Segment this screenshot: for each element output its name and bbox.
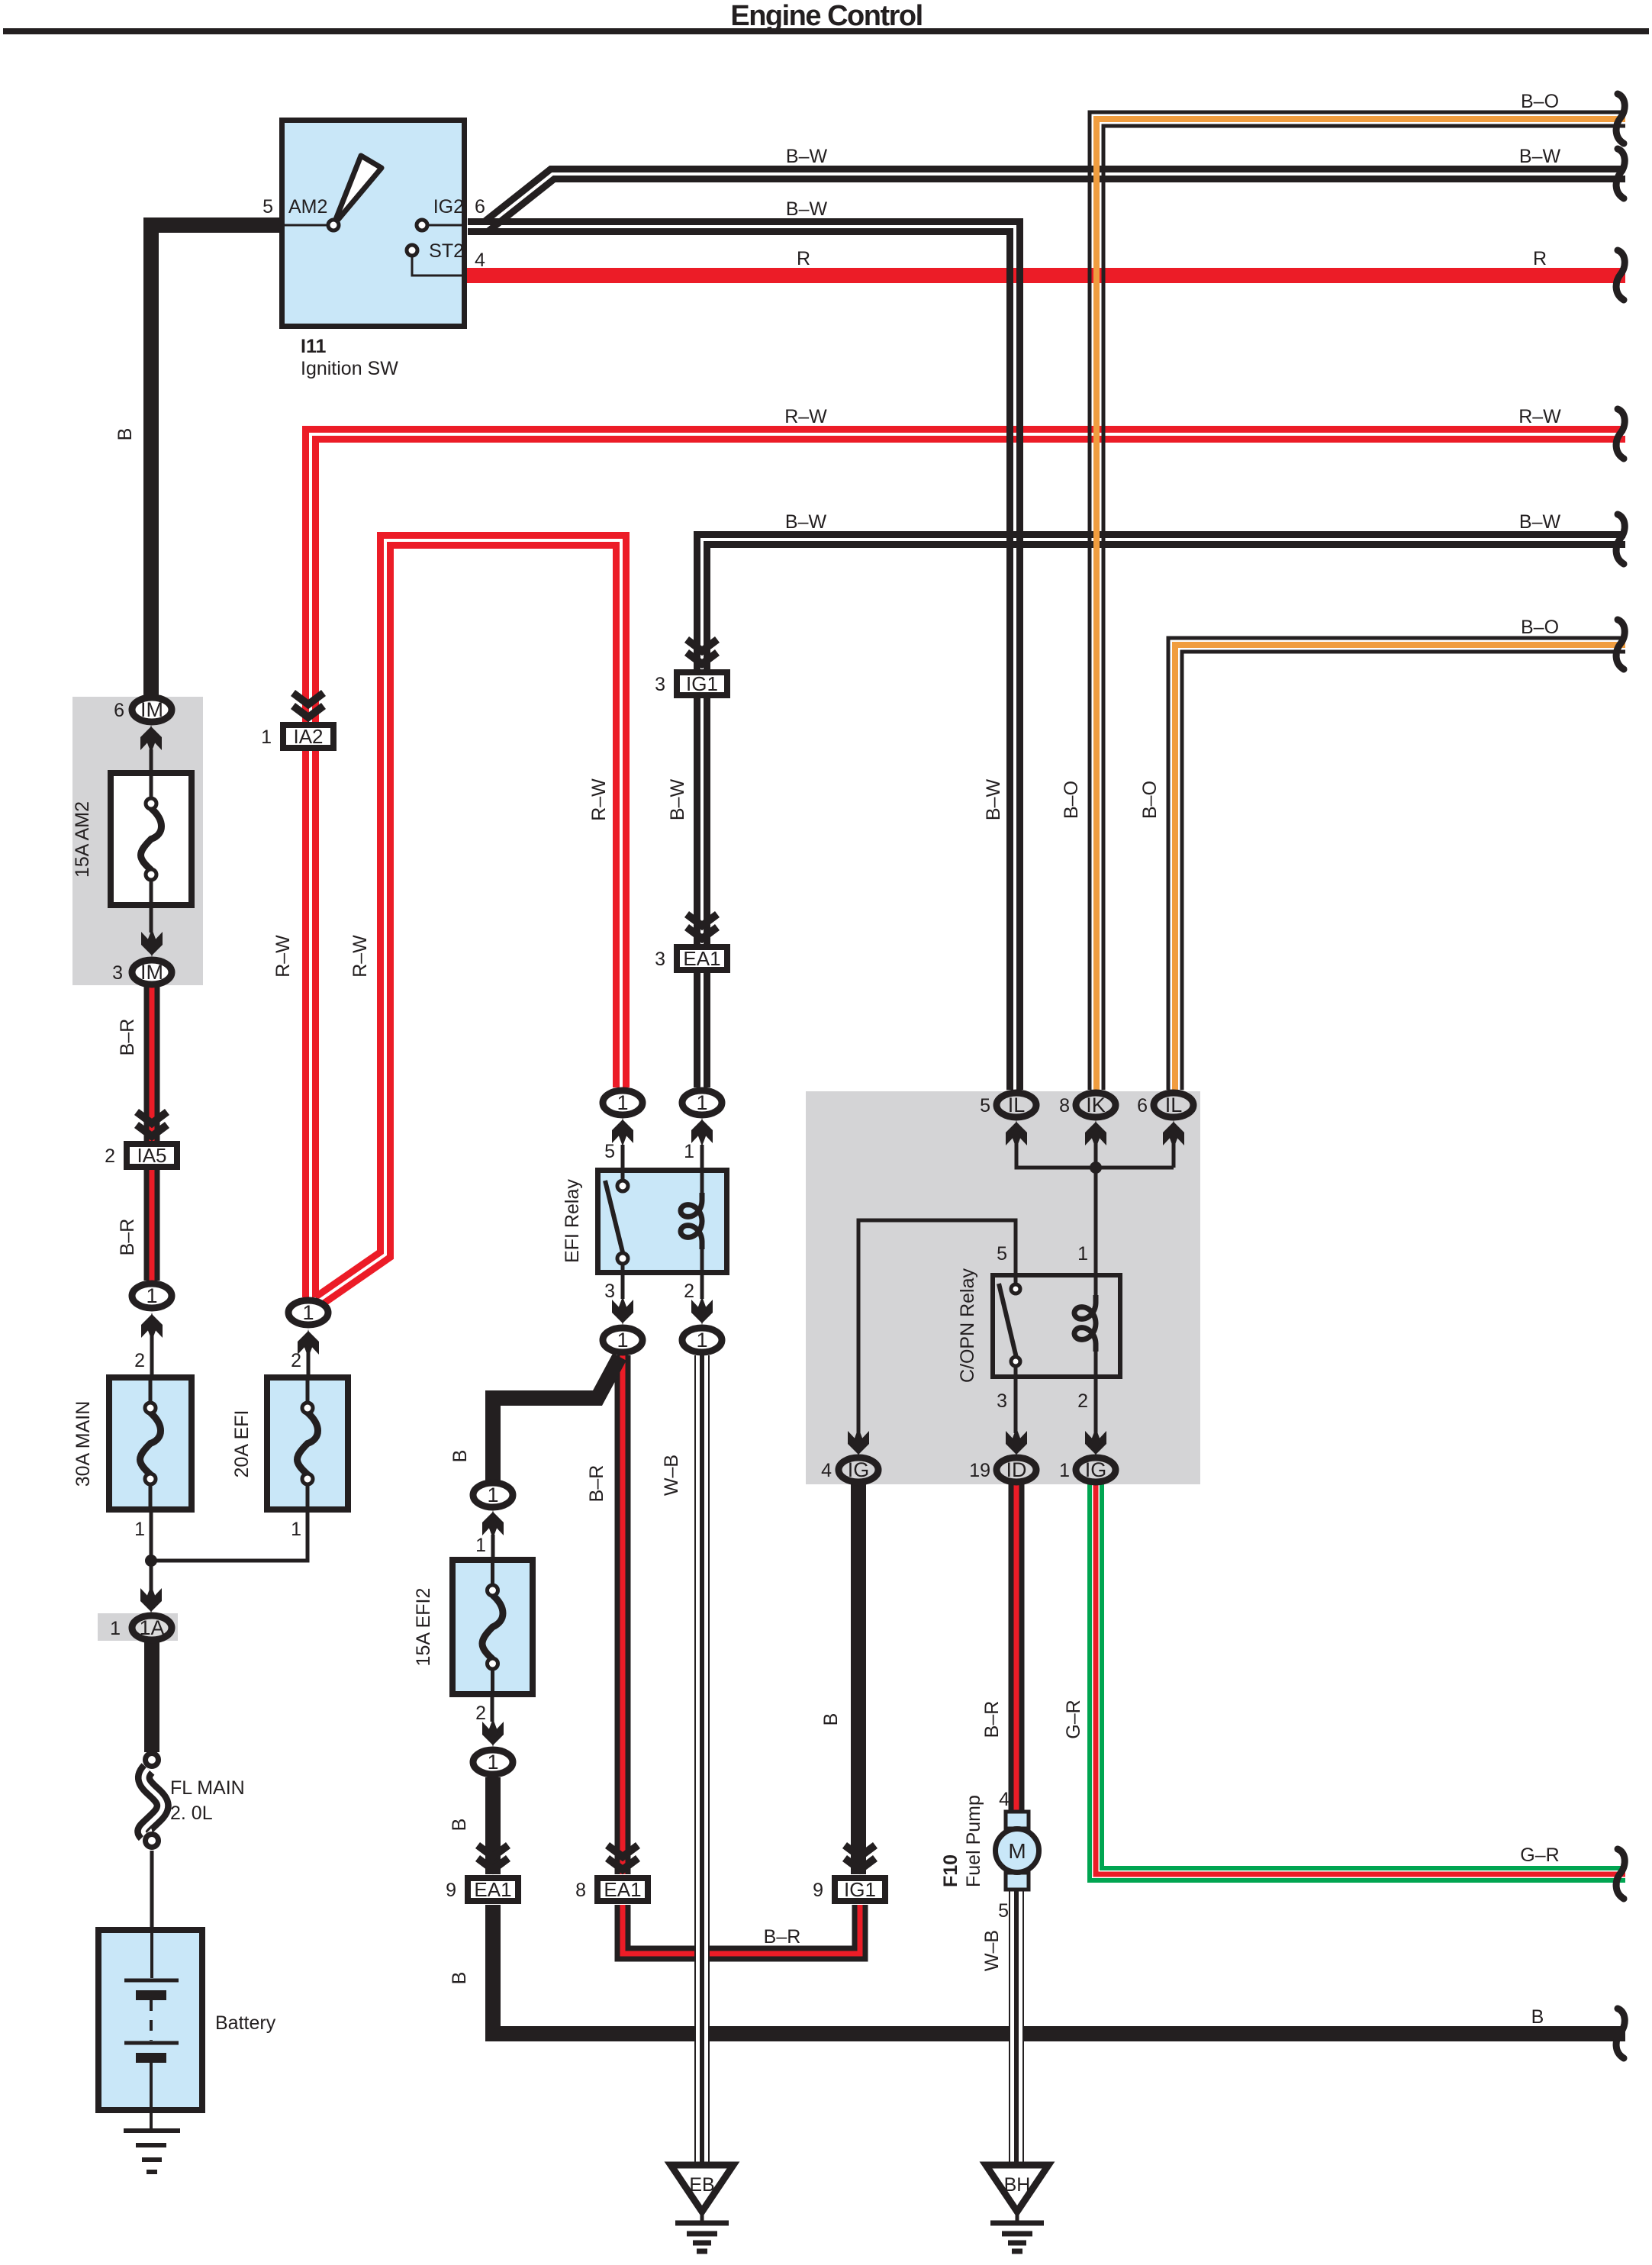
wire B thick 15A EFI2 to 9 EA1 (485, 1777, 501, 1874)
svg-text:2: 2 (1077, 1390, 1088, 1412)
svg-text:AM2: AM2 (288, 196, 327, 217)
svg-text:1: 1 (146, 1284, 157, 1307)
svg-text:2: 2 (475, 1703, 486, 1724)
arrow into oval above 30A MAIN (141, 1313, 163, 1341)
wire W-B from fuel pump pin 5 to BH ground (1009, 1890, 1024, 2164)
svg-text:ST2: ST2 (429, 240, 464, 262)
connector oval 1 above EFI relay pin 1 (682, 1091, 722, 1115)
svg-text:IG: IG (848, 1458, 870, 1481)
arrow into EA1 (687, 914, 717, 939)
svg-text:R–W: R–W (784, 406, 827, 427)
svg-text:5: 5 (604, 1141, 615, 1162)
svg-text:G–R: G–R (1063, 1700, 1084, 1738)
wire B thick from 1A to FL MAIN (144, 1642, 159, 1752)
arrow into 6 IL (1163, 1120, 1184, 1149)
svg-text:2: 2 (134, 1350, 145, 1371)
wire B-O lower from right edge down to 6 IL (1175, 645, 1625, 1090)
arrow into 5 IL (1006, 1120, 1027, 1149)
ignition switch ST2 contact (407, 245, 417, 256)
cut squiggle G-R (1616, 1849, 1625, 1899)
arrow into IA5 (137, 1112, 167, 1136)
wire thin links IL IK IL to C/OPN coil (1016, 1143, 1174, 1273)
svg-text:1: 1 (134, 1519, 145, 1540)
wire B thick from battery AM2 feed to ignition switch (151, 225, 279, 695)
C/OPN relay switch (999, 1273, 1020, 1379)
wire R-W from right edge to IA2 and 20A EFI fuse (311, 434, 1625, 1297)
battery cells symbol (124, 1927, 179, 2113)
arrow into 1A (140, 1585, 162, 1613)
svg-text:F10: F10 (940, 1854, 961, 1887)
svg-text:1: 1 (617, 1329, 628, 1352)
connector IA2 (283, 725, 333, 748)
arrow into oval above 15A EFI2 (482, 1510, 504, 1538)
svg-text:15A AM2: 15A AM2 (72, 801, 93, 878)
svg-text:IG1: IG1 (686, 672, 718, 695)
svg-text:9: 9 (813, 1880, 823, 1901)
svg-text:30A MAIN: 30A MAIN (72, 1401, 94, 1487)
svg-text:1A: 1A (139, 1616, 164, 1639)
svg-text:I11: I11 (301, 336, 326, 357)
svg-text:B: B (449, 1450, 471, 1463)
connector oval 1 below EFI relay pin 3 (603, 1328, 642, 1352)
svg-text:IG: IG (1085, 1458, 1107, 1481)
svg-text:Engine Control: Engine Control (730, 0, 922, 32)
wire R solid from ST2 pin 4 to right edge (467, 268, 1625, 283)
svg-text:1: 1 (617, 1091, 628, 1114)
svg-text:IM: IM (140, 698, 163, 721)
svg-text:R–W: R–W (1518, 406, 1561, 427)
svg-text:2: 2 (684, 1281, 694, 1302)
svg-text:IL: IL (1165, 1094, 1183, 1116)
svg-text:B: B (449, 1819, 470, 1832)
arrow into EFI relay oval pin5 (612, 1118, 633, 1146)
svg-text:1: 1 (475, 1535, 486, 1556)
cut squiggle R-W (1616, 409, 1625, 459)
svg-text:B–O: B–O (1521, 91, 1559, 112)
svg-text:EA1: EA1 (474, 1878, 511, 1901)
svg-text:8: 8 (1059, 1095, 1070, 1116)
arrow into 3 IM (141, 929, 163, 957)
svg-text:B: B (114, 428, 136, 441)
wire B-R from 19 ID to fuel pump pin 4 (1009, 1483, 1025, 1812)
svg-text:15A EFI2: 15A EFI2 (413, 1588, 434, 1667)
junction dot above C/OPN coil (1090, 1161, 1102, 1174)
svg-text:M: M (1008, 1839, 1026, 1863)
arrow into IG1 (687, 640, 717, 664)
svg-text:B–O: B–O (1139, 781, 1161, 819)
connector oval 1 above EFI relay pin 5 (603, 1091, 642, 1115)
connector oval 1 above 15A EFI2 (473, 1483, 513, 1507)
svg-text:2: 2 (105, 1145, 115, 1167)
wire B-O from right edge down to 8 IK (1097, 119, 1625, 1090)
connector oval 6 IM (132, 698, 172, 722)
connector 9 EA1 (468, 1878, 518, 1901)
arrow into 9 IG1 (845, 1845, 875, 1870)
battery ground symbol (124, 2113, 180, 2172)
connector 8 EA1 (597, 1878, 648, 1901)
connector IA5 (127, 1144, 177, 1167)
svg-text:1: 1 (1059, 1460, 1070, 1481)
cut squiggle B-W lower (1616, 514, 1625, 564)
connector oval 1 IG (1076, 1458, 1116, 1482)
cut squiggle B (1616, 2009, 1625, 2058)
connector oval 1A (132, 1616, 172, 1640)
connector oval 1 above 30A MAIN (132, 1284, 172, 1308)
EFI relay coil (700, 1145, 704, 1193)
arrow into 19 ID (1006, 1428, 1027, 1456)
connector oval 3 IM (132, 960, 172, 984)
svg-text:B–O: B–O (1061, 781, 1082, 819)
svg-text:IM: IM (140, 961, 163, 984)
connector oval 19 ID (997, 1458, 1036, 1482)
svg-text:R: R (1533, 248, 1547, 269)
arrow into oval above 20A EFI (298, 1329, 319, 1358)
svg-text:IL: IL (1008, 1094, 1026, 1116)
svg-text:EB: EB (689, 2174, 714, 2196)
connector oval 6 IL (1154, 1093, 1193, 1117)
svg-text:EA1: EA1 (683, 947, 720, 970)
ignition switch AM2 contact (328, 220, 339, 230)
svg-text:4: 4 (821, 1460, 832, 1481)
arrow into EFI relay pin3 output oval (612, 1297, 633, 1325)
wire B thick from 4 IG to 9 IG1 (851, 1483, 866, 1874)
arrow into 4 IG (848, 1428, 869, 1456)
connector 3 EA1 (677, 947, 727, 970)
wire thin C/OPN pin 5 to 4 IG (858, 1220, 1016, 1433)
svg-text:B: B (1531, 2006, 1544, 2028)
connector oval 1 below EFI relay pin 2 (682, 1328, 722, 1352)
svg-text:B–W: B–W (785, 511, 827, 533)
wire thin 30A MAIN entry (150, 1335, 154, 1377)
svg-text:1: 1 (696, 1091, 707, 1114)
ignition switch I11 box (279, 121, 467, 327)
wire thin C/OPN pin 3 to 19 ID (1014, 1379, 1018, 1433)
arrow into oval below 15A EFI2 (482, 1719, 504, 1747)
wire B-W from right edge to IG1 EA1 and EFI relay pin 1 (702, 540, 1625, 1087)
svg-text:R: R (797, 248, 810, 269)
svg-text:5: 5 (998, 1900, 1009, 1922)
svg-text:4: 4 (999, 1789, 1010, 1810)
wire B-R from EFI relay pin 3 oval down to 8 EA1 (615, 1355, 631, 1874)
wire thin from 30A MAIN to junction and 20A EFI (151, 1509, 308, 1561)
connector oval 4 IG (839, 1458, 878, 1482)
connector oval 1 above 20A EFI (288, 1300, 328, 1325)
wire B-R from 3 IM through IA5 to fuse oval (144, 987, 160, 1281)
svg-text:1: 1 (684, 1141, 694, 1162)
EFI relay switch (605, 1145, 628, 1299)
arrow into 8 IK (1085, 1120, 1106, 1149)
wire W-B from EFI relay pin 2 to EB ground (694, 1355, 710, 2164)
title rule (3, 28, 1649, 34)
ignition switch IG2 contact (417, 220, 427, 230)
svg-text:B–R: B–R (117, 1219, 138, 1256)
wire B-W upper from IG2 via diagonal to right edge (471, 174, 1625, 227)
junction dot battery feed (145, 1555, 157, 1567)
wire B thick EFI relay pin 3 to 15A EFI2 oval (493, 1357, 620, 1481)
arrow into 6 IM (140, 725, 162, 753)
gray highlight box around 15A AM2 fuse block (72, 697, 203, 985)
svg-text:6: 6 (475, 196, 485, 217)
svg-text:3: 3 (655, 949, 665, 970)
svg-text:W–B: W–B (661, 1455, 682, 1496)
svg-text:5: 5 (262, 196, 273, 217)
fuse 30A MAIN (109, 1377, 192, 1509)
svg-text:5: 5 (997, 1243, 1007, 1265)
svg-text:1: 1 (487, 1751, 498, 1774)
ground BH (986, 2165, 1048, 2251)
svg-text:2: 2 (291, 1350, 301, 1371)
svg-text:B–R: B–R (117, 1019, 138, 1056)
svg-text:B–O: B–O (1521, 617, 1559, 638)
svg-text:3: 3 (112, 962, 123, 984)
arrow into EFI relay oval pin1 (691, 1118, 713, 1146)
svg-text:1: 1 (302, 1301, 314, 1324)
fuse 15A EFI2 (452, 1560, 533, 1694)
arrow into 1 IG (1085, 1428, 1106, 1456)
svg-text:B–W: B–W (786, 146, 828, 167)
svg-text:W–B: W–B (981, 1930, 1003, 1971)
ground EB (671, 2165, 733, 2251)
wire B-W from IG2 pin 6 down to 5 IL (468, 227, 1015, 1090)
svg-text:Battery: Battery (215, 2012, 276, 2034)
wire thin FL MAIN to battery (150, 1851, 154, 1928)
connector oval 8 IK (1076, 1093, 1116, 1117)
arrow into IA2 (293, 693, 324, 717)
svg-text:8: 8 (575, 1880, 586, 1901)
connector 3 IG1 (677, 672, 727, 695)
svg-text:Fuel Pump: Fuel Pump (963, 1795, 984, 1887)
fusible link FL MAIN 2.0L (143, 1754, 163, 1848)
svg-text:1: 1 (487, 1484, 498, 1506)
label I11 Ignition SW (301, 336, 398, 379)
svg-text:B–W: B–W (983, 779, 1004, 821)
svg-text:5: 5 (980, 1095, 990, 1116)
wire G-R from C/OPN 1 IG to right edge (1096, 1483, 1625, 1874)
svg-text:R–W: R–W (272, 935, 294, 978)
svg-text:BH: BH (1004, 2174, 1031, 2196)
svg-text:20A EFI: 20A EFI (231, 1410, 253, 1478)
svg-text:3: 3 (997, 1390, 1007, 1412)
gray highlight behind 1A connector (98, 1613, 178, 1641)
svg-text:B–W: B–W (786, 198, 828, 220)
cut squiggle B-W upper (1616, 149, 1625, 198)
svg-text:IG1: IG1 (844, 1878, 876, 1901)
svg-text:4: 4 (475, 250, 485, 271)
fuel pump F10 motor (996, 1812, 1039, 1890)
svg-text:IA5: IA5 (137, 1144, 166, 1167)
label FL MAIN 2.0L (170, 1777, 245, 1824)
svg-text:6: 6 (1137, 1095, 1148, 1116)
svg-text:2. 0L: 2. 0L (170, 1803, 213, 1824)
svg-text:3: 3 (655, 674, 665, 695)
C/OPN relay box (993, 1275, 1120, 1377)
wire R-W branch from 20A EFI output to EFI relay pin 5 (318, 540, 621, 1301)
svg-text:G–R: G–R (1520, 1845, 1559, 1866)
ignition switch lever (333, 156, 382, 225)
svg-text:1: 1 (291, 1519, 301, 1540)
svg-text:R–W: R–W (588, 778, 610, 821)
svg-text:19: 19 (969, 1460, 990, 1481)
svg-text:ID: ID (1006, 1458, 1027, 1481)
wire B thick from 9 EA1 to right edge (493, 1905, 1625, 2034)
svg-text:B–R: B–R (981, 1701, 1003, 1738)
svg-text:B: B (820, 1713, 842, 1726)
svg-text:Ignition SW: Ignition SW (301, 358, 398, 379)
connector oval 5 IL (997, 1093, 1036, 1117)
wire thin C/OPN pin 2 to 1 IG (1094, 1379, 1098, 1433)
svg-text:B–W: B–W (1519, 511, 1561, 533)
svg-text:B–R: B–R (764, 1926, 801, 1948)
svg-text:IA2: IA2 (293, 725, 323, 748)
svg-text:1: 1 (110, 1618, 121, 1639)
arrow into 8 EA1 (607, 1845, 638, 1870)
cut squiggle R (1616, 250, 1625, 300)
wire thin junction down to 1A connector (150, 1561, 153, 1591)
connector oval 1 below 15A EFI2 (473, 1750, 513, 1774)
label F10 Fuel Pump (940, 1795, 984, 1887)
svg-text:B: B (449, 1972, 470, 1985)
cut squiggle B-O (1616, 94, 1625, 143)
connector 9 IG1 (835, 1878, 885, 1901)
wire thin 15A EFI2 fuse links (492, 1535, 493, 1722)
svg-text:C/OPN Relay: C/OPN Relay (957, 1268, 978, 1383)
svg-text:B–R: B–R (586, 1465, 607, 1503)
svg-text:EFI Relay: EFI Relay (562, 1179, 583, 1263)
svg-text:IK: IK (1086, 1094, 1106, 1116)
svg-text:1: 1 (1077, 1243, 1088, 1265)
wire B-R from 8 EA1 to 9 IG1 (623, 1905, 860, 1954)
cut squiggle B-O lower (1616, 620, 1625, 669)
arrow into 9 EA1 (478, 1845, 508, 1870)
ignition switch terminal labels (288, 196, 464, 262)
svg-text:9: 9 (446, 1880, 456, 1901)
fuse 20A EFI (267, 1377, 348, 1509)
svg-text:1: 1 (261, 727, 272, 748)
arrow into EFI relay pin2 output oval (691, 1297, 713, 1325)
svg-text:FL MAIN: FL MAIN (170, 1777, 245, 1799)
wire thin 20A EFI entry (307, 1352, 311, 1377)
svg-text:EA1: EA1 (604, 1878, 641, 1901)
svg-text:IG2: IG2 (433, 196, 464, 217)
svg-text:6: 6 (114, 700, 124, 721)
battery box (98, 1930, 202, 2110)
svg-text:B–W: B–W (1519, 146, 1561, 167)
svg-text:1: 1 (696, 1329, 707, 1352)
svg-text:B–W: B–W (667, 779, 688, 821)
wire thin 15A AM2 fuse links (150, 749, 153, 933)
C/OPN relay coil (1094, 1273, 1098, 1295)
EFI relay box (598, 1171, 727, 1273)
gray highlight box around C/OPN relay block (806, 1091, 1200, 1484)
svg-text:R–W: R–W (349, 935, 371, 978)
fuse 15A AM2 (111, 773, 192, 905)
svg-text:3: 3 (604, 1281, 615, 1302)
